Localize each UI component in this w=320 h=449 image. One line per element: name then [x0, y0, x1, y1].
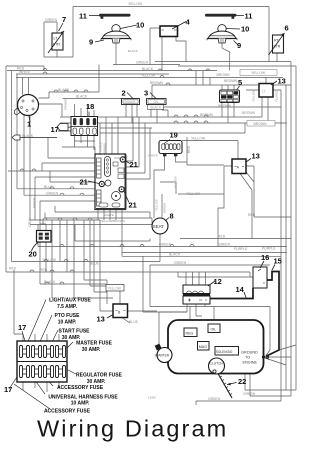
- svg-text:Wiring Diagram: Wiring Diagram: [37, 416, 228, 442]
- wire upper horizontal buses: [7, 62, 291, 99]
- svg-text:WHITE: WHITE: [148, 154, 158, 158]
- svg-text:GREEN: GREEN: [243, 392, 256, 396]
- svg-text:ACCESSORY FUSE: ACCESSORY FUSE: [57, 385, 104, 391]
- svg-text:GREEN: GREEN: [208, 397, 221, 401]
- wire engine top taps: [143, 256, 214, 328]
- wire box16 leads: [211, 307, 270, 356]
- svg-text:ORANGE: ORANGE: [64, 98, 68, 110]
- svg-text:17: 17: [51, 125, 59, 134]
- svg-text:YELLOW: YELLOW: [141, 74, 156, 78]
- brake switch box 4: [160, 22, 186, 37]
- svg-text:10 AMP.: 10 AMP.: [71, 401, 90, 407]
- svg-text:10 AMP.: 10 AMP.: [58, 319, 77, 325]
- wire left bus verticals: [6, 66, 29, 272]
- svg-text:YELLOW: YELLOW: [174, 176, 178, 188]
- svg-text:12: 12: [214, 277, 222, 286]
- wire box13B leads: [100, 291, 157, 323]
- svg-text:REG: REG: [186, 331, 194, 335]
- svg-text:GREEN: GREEN: [163, 203, 167, 213]
- seat switch 8: [152, 218, 169, 235]
- svg-text:BROWN: BROWN: [217, 73, 231, 77]
- svg-text:BLUE: BLUE: [90, 262, 100, 266]
- svg-text:11: 11: [245, 12, 253, 21]
- svg-text:19: 19: [170, 131, 178, 140]
- svg-text:STARTER: STARTER: [155, 354, 170, 358]
- wire yellow top bus: [73, 7, 269, 63]
- svg-text:30 AMP.: 30 AMP.: [82, 347, 101, 353]
- svg-text:LT: LT: [262, 90, 266, 94]
- svg-text:RT: RT: [274, 39, 280, 43]
- svg-text:16: 16: [261, 253, 269, 262]
- svg-text:YELLOW: YELLOW: [155, 199, 159, 211]
- svg-text:BROWN: BROWN: [200, 113, 214, 117]
- wire right edge verticals: [281, 62, 296, 402]
- battery cable 14: [211, 288, 254, 299]
- wire lower mid verticals: [52, 220, 100, 298]
- wire LT turn lamp leads: [44, 22, 73, 57]
- svg-text:YELLOW: YELLOW: [42, 258, 57, 262]
- wire ground junction leads: [265, 345, 296, 365]
- svg-text:TO: TO: [245, 356, 250, 360]
- svg-text:GREEN: GREEN: [218, 242, 231, 246]
- svg-text:BROWN: BROWN: [150, 81, 164, 85]
- svg-text:GREEN: GREEN: [46, 191, 59, 195]
- regulator box REG: [184, 328, 197, 337]
- wire box13A staircase: [160, 141, 291, 247]
- node number labels: [4, 12, 289, 395]
- svg-text:ENGINE: ENGINE: [243, 361, 258, 365]
- svg-text:WHITE: WHITE: [114, 156, 124, 160]
- svg-text:21: 21: [80, 178, 88, 187]
- svg-text:BLACK: BLACK: [128, 49, 138, 53]
- svg-text:10: 10: [241, 25, 249, 34]
- clutch circle: [209, 358, 225, 374]
- wire right headlight drop: [222, 43, 230, 71]
- svg-text:BLACK: BLACK: [76, 95, 88, 99]
- wire module left taps: [8, 138, 95, 225]
- svg-text:SEAT: SEAT: [153, 224, 164, 229]
- svg-text:RED: RED: [9, 266, 17, 270]
- ground junction: [262, 354, 269, 360]
- fuse label leader lines: [9, 300, 76, 410]
- wire mid black buses: [60, 66, 296, 154]
- wire box13t leads: [246, 77, 281, 123]
- svg-text:YELLOW/BROWN: YELLOW/BROWN: [100, 219, 125, 223]
- svg-text:7.5 AMP.: 7.5 AMP.: [57, 304, 78, 310]
- wire RT turn lamp lead: [276, 53, 278, 62]
- svg-text:YELLOW: YELLOW: [108, 286, 121, 290]
- svg-text:MASTER FUSE: MASTER FUSE: [76, 341, 113, 347]
- svg-text:7: 7: [62, 15, 66, 24]
- svg-text:PTO FUSE: PTO FUSE: [55, 313, 81, 319]
- svg-text:GREEN: GREEN: [32, 198, 36, 208]
- svg-text:BROWN: BROWN: [254, 122, 268, 126]
- wire left bus horizontals: [6, 66, 250, 284]
- svg-text:BROWN: BROWN: [224, 79, 238, 83]
- relay box 13 top right: [259, 81, 277, 97]
- svg-text:BROWN: BROWN: [242, 111, 256, 115]
- svg-text:STR: STR: [273, 45, 281, 49]
- svg-text:3: 3: [144, 89, 148, 98]
- spade connector black: [12, 134, 57, 140]
- wire battery top bus: [178, 272, 253, 285]
- magneto box MAG: [198, 342, 210, 351]
- svg-text:STR: STR: [53, 43, 61, 47]
- light bar 11 left: [89, 14, 131, 19]
- svg-text:WHITE: WHITE: [19, 70, 31, 74]
- battery 12: [183, 281, 215, 304]
- svg-text:GREEN: GREEN: [45, 18, 58, 22]
- svg-text:GRAY: GRAY: [28, 217, 32, 227]
- svg-text:RED: RED: [218, 235, 226, 239]
- svg-text:CLUTCH: CLUTCH: [210, 362, 224, 366]
- ground to engine text: [241, 351, 258, 365]
- headlight 9/10 left: [95, 25, 137, 43]
- wire module top drops: [100, 117, 118, 154]
- svg-text:18: 18: [86, 102, 94, 111]
- svg-text:UNIVERSAL HARNESS FUSE: UNIVERSAL HARNESS FUSE: [48, 394, 118, 400]
- wire box4 drops: [150, 28, 186, 71]
- rectifier box 15/16: [244, 261, 275, 298]
- svg-text:YELLOW: YELLOW: [251, 71, 266, 75]
- svg-text:6: 6: [285, 24, 289, 33]
- label box brown right: [247, 121, 275, 127]
- svg-text:GROUND: GROUND: [241, 351, 258, 355]
- wire color labels: [9, 2, 279, 401]
- svg-text:15: 15: [274, 257, 282, 266]
- svg-text:13: 13: [97, 315, 105, 324]
- relay box 13 B: [106, 285, 128, 319]
- svg-text:ACCESSORY FUSE: ACCESSORY FUSE: [44, 408, 91, 414]
- svg-text:BLACK: BLACK: [169, 252, 181, 256]
- svg-text:BLACK: BLACK: [58, 88, 70, 92]
- headlight 9/10 right: [207, 25, 240, 45]
- svg-text:8: 8: [170, 212, 174, 221]
- fuse name labels: [44, 298, 123, 415]
- svg-text:BLACK: BLACK: [44, 280, 56, 284]
- relay box 13 A: [232, 159, 251, 174]
- svg-text:BLACK: BLACK: [142, 67, 154, 71]
- wire below module horizontals: [30, 171, 152, 225]
- svg-text:1: 1: [27, 120, 31, 129]
- svg-text:WHITE: WHITE: [104, 213, 114, 217]
- svg-text:21: 21: [130, 160, 138, 169]
- svg-text:13: 13: [252, 152, 260, 161]
- svg-text:14: 14: [236, 285, 245, 294]
- PCB module 21: [88, 154, 130, 210]
- svg-text:BRAKE: BRAKE: [125, 100, 136, 104]
- svg-text:10: 10: [136, 21, 144, 30]
- svg-text:BROWN: BROWN: [218, 104, 232, 108]
- wire ignition connections: [39, 65, 100, 117]
- svg-text:GREEN: GREEN: [136, 61, 149, 65]
- brake light switch box 2: [122, 93, 140, 105]
- svg-text:11: 11: [79, 12, 87, 21]
- svg-text:17: 17: [18, 323, 26, 332]
- connector 19: [159, 140, 182, 157]
- svg-text:YELLOW: YELLOW: [191, 136, 206, 140]
- svg-text:5: 5: [238, 78, 242, 87]
- svg-text:OIL: OIL: [211, 327, 217, 331]
- relay module 5: [220, 86, 240, 103]
- wire mid-right buses: [38, 225, 291, 266]
- svg-text:YELLOW: YELLOW: [128, 2, 143, 6]
- test point 21 c: [119, 187, 124, 192]
- svg-text:22: 22: [238, 377, 246, 386]
- svg-text:PURPLE: PURPLE: [234, 247, 248, 251]
- svg-text:MAG: MAG: [199, 345, 207, 349]
- test point 21 a: [120, 157, 125, 162]
- wire box20 leads: [40, 220, 46, 231]
- wire right bottom turns: [196, 374, 296, 406]
- wire hump crossover marks: [20, 69, 210, 285]
- test point 21 b: [99, 181, 104, 186]
- light bar 11 right: [205, 14, 244, 19]
- solenoid box: [215, 347, 239, 356]
- engine block outline: [168, 320, 264, 374]
- svg-text:RED: RED: [40, 268, 48, 272]
- svg-text:GREEN: GREEN: [174, 261, 187, 265]
- svg-text:13: 13: [278, 77, 286, 86]
- wire conn19 leads: [154, 137, 224, 218]
- oil box OIL: [208, 324, 220, 333]
- svg-text:9: 9: [237, 41, 241, 50]
- wire module right taps: [126, 117, 151, 179]
- svg-text:9: 9: [89, 38, 93, 47]
- svg-text:RED: RED: [187, 145, 191, 153]
- svg-text:ORANGE: ORANGE: [103, 143, 107, 155]
- svg-text:2: 2: [122, 89, 126, 98]
- connector 20: [32, 231, 52, 252]
- svg-text:BLUE: BLUE: [129, 320, 139, 324]
- svg-text:21: 21: [129, 201, 137, 210]
- svg-text:BLACK: BLACK: [151, 105, 162, 109]
- turn signal RT STR box 6: [269, 33, 285, 55]
- svg-text:REGULATOR FUSE: REGULATOR FUSE: [76, 373, 123, 379]
- svg-text:BLUE: BLUE: [44, 185, 54, 189]
- label box yellow right: [240, 70, 277, 76]
- wire clutch-solenoid: [214, 333, 226, 360]
- wire bottom fuse stubs: [14, 270, 59, 392]
- connector plug left of fuse block: [57, 124, 68, 131]
- clutch cable 22: [218, 374, 237, 399]
- wire module bottom drops: [98, 210, 122, 257]
- starter circle: [155, 344, 173, 363]
- battery cable 15 to ground: [267, 272, 280, 357]
- svg-text:20: 20: [29, 250, 37, 259]
- svg-text:LIGHT/AUX FUSE: LIGHT/AUX FUSE: [49, 298, 91, 304]
- turn signal LT STR box 7: [48, 31, 64, 53]
- fuse block 17/18 upper: [58, 112, 98, 136]
- bottom fuse block 17: [17, 341, 67, 382]
- svg-text:YELLOW: YELLOW: [186, 192, 201, 196]
- wire battery bottom leads: [159, 304, 202, 344]
- svg-text:GREEN: GREEN: [159, 243, 172, 247]
- ignition switch 1: [14, 95, 38, 123]
- svg-text:PURPLE: PURPLE: [262, 247, 276, 251]
- oil switch box 3: [147, 93, 167, 110]
- wire fuse block upper taps: [75, 104, 95, 150]
- svg-text:YELLOW: YELLOW: [252, 90, 256, 102]
- svg-text:OIL: OIL: [154, 100, 159, 104]
- svg-text:BLACK: BLACK: [22, 134, 34, 138]
- wire relay5 drops: [196, 71, 234, 123]
- wire box2 box3 drops: [63, 99, 169, 124]
- wire left headlight drop: [115, 43, 117, 65]
- svg-text:RED: RED: [248, 213, 256, 217]
- svg-text:YEL/RED: YEL/RED: [275, 90, 279, 102]
- svg-text:13050: 13050: [148, 396, 156, 400]
- svg-text:START FUSE: START FUSE: [58, 329, 90, 335]
- svg-text:SOLENOID: SOLENOID: [216, 350, 233, 354]
